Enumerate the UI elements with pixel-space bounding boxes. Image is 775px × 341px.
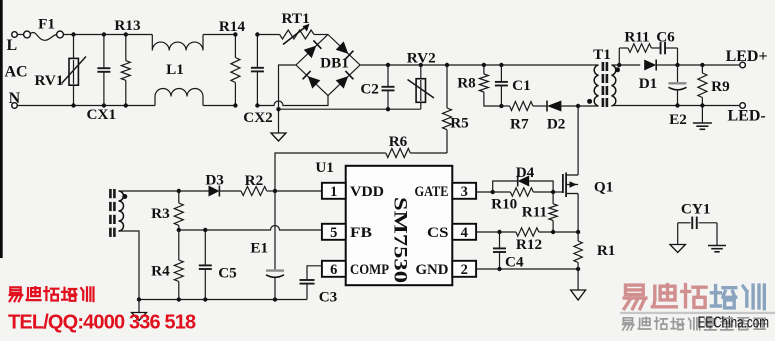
svg-text:D2: D2 <box>547 116 566 133</box>
pin 5 FB <box>322 224 346 240</box>
transistor Q1 MOSFET <box>562 174 564 193</box>
svg-text:R5: R5 <box>450 115 469 132</box>
transformer T1 core <box>602 62 605 71</box>
svg-text:SM7530: SM7530 <box>389 197 409 283</box>
watermark logo underline <box>620 312 775 314</box>
svg-text:DB1: DB1 <box>320 55 349 72</box>
resistor R9 <box>701 65 703 73</box>
svg-text:4: 4 <box>461 225 468 241</box>
common-mode choke L1 <box>152 35 203 51</box>
pin 3 GATE <box>452 183 476 199</box>
wire top AC rail <box>64 34 153 36</box>
wire RT1 to bridge top <box>314 34 328 36</box>
resistor R5 <box>446 65 448 108</box>
svg-text:U1: U1 <box>315 159 334 176</box>
svg-text:D1: D1 <box>639 75 658 92</box>
bridge diode upper-right <box>336 41 349 54</box>
snubber riser left <box>618 48 620 65</box>
svg-text:C6: C6 <box>656 29 675 46</box>
pin 6 COMP <box>322 261 346 277</box>
svg-text:3: 3 <box>461 184 468 200</box>
pin 4 CS <box>452 224 476 240</box>
svg-text:C1: C1 <box>512 77 531 94</box>
svg-text:1: 1 <box>330 184 337 200</box>
resistor R4 <box>178 230 180 260</box>
resistor R11 gate <box>552 192 554 204</box>
svg-text:EEChina.com: EEChina.com <box>698 315 770 332</box>
svg-text:CX2: CX2 <box>243 109 273 126</box>
node drain junction <box>576 104 580 108</box>
ground output earth <box>701 106 703 124</box>
resistor R12 <box>516 228 539 236</box>
capacitor E2 electrolytic <box>677 65 679 82</box>
svg-text:L: L <box>6 37 17 54</box>
svg-text:2: 2 <box>461 262 468 278</box>
resistor R3 <box>174 203 183 225</box>
svg-text:L1: L1 <box>166 61 184 78</box>
svg-text:CX1: CX1 <box>87 106 117 123</box>
wire aux top to D3 line <box>119 190 179 192</box>
svg-text:R7: R7 <box>510 116 529 133</box>
capacitor CX2 <box>256 35 258 68</box>
varistor RV2 <box>420 65 422 79</box>
transformer T1 phase dot primary <box>587 99 592 104</box>
diode D4 bypass <box>493 181 518 192</box>
svg-text:F1: F1 <box>38 15 55 32</box>
ground CY1 left (open triangle) <box>670 245 686 253</box>
aux winding phase dot <box>122 194 127 199</box>
op-amp U1 SM7530 body <box>346 166 453 285</box>
resistor R2 <box>219 190 241 192</box>
capacitor C5 <box>204 230 206 265</box>
svg-text:N: N <box>9 90 21 107</box>
ground primary DC- (open triangle) <box>271 133 286 141</box>
thermistor RT1 <box>280 30 314 39</box>
svg-text:CY1: CY1 <box>681 201 711 218</box>
transformer T1 secondary winding <box>612 65 616 106</box>
ground CY1 right earth <box>708 245 726 247</box>
svg-text:E2: E2 <box>669 111 687 128</box>
terminal L (AC live input) <box>12 32 18 38</box>
svg-text:GND: GND <box>416 262 449 278</box>
capacitor E1 electrolytic <box>274 191 276 269</box>
diode D2 <box>547 101 561 112</box>
svg-text:LED+: LED+ <box>726 48 768 65</box>
svg-text:Q1: Q1 <box>594 179 613 196</box>
capacitor C6 <box>651 47 660 49</box>
terminal LED+ <box>740 62 746 68</box>
svg-text:RV2: RV2 <box>407 49 436 66</box>
wire secondary top to D1 <box>612 64 641 66</box>
svg-text:D3: D3 <box>205 171 224 188</box>
svg-text:TEL/QQ:4000 336 518: TEL/QQ:4000 336 518 <box>8 312 196 334</box>
svg-text:R6: R6 <box>389 133 408 150</box>
diode D3 <box>179 190 209 192</box>
svg-text:R1: R1 <box>597 242 616 259</box>
wire bridge left corner to ground node <box>279 65 297 133</box>
wire L1 to R14 top <box>203 34 235 36</box>
wire R14 to RT1 <box>257 34 279 36</box>
diode D1 <box>644 60 656 71</box>
capacitor C4 <box>499 232 501 248</box>
wire bottom ground rail <box>139 299 307 301</box>
svg-text:T1: T1 <box>593 46 611 63</box>
aux winding core <box>109 189 112 198</box>
wire primary ground rail <box>279 108 421 110</box>
resistor R7 <box>501 105 509 107</box>
transformer T1 phase dot secondary <box>615 67 620 72</box>
svg-text:C5: C5 <box>218 265 237 282</box>
svg-text:R14: R14 <box>219 18 246 35</box>
capacitor C1 <box>500 65 502 81</box>
resistor R11 snubber <box>619 47 628 49</box>
svg-text:D4: D4 <box>516 164 535 181</box>
bridge diode upper-left <box>304 46 317 59</box>
svg-text:VDD: VDD <box>350 184 384 200</box>
svg-text:R2: R2 <box>245 172 264 189</box>
resistor R13 <box>125 35 127 61</box>
svg-text:C3: C3 <box>319 289 338 306</box>
svg-text:R3: R3 <box>151 205 170 222</box>
svg-text:C4: C4 <box>505 254 524 271</box>
capacitor CX1 <box>103 35 105 69</box>
node gate <box>551 190 555 194</box>
svg-text:GATE: GATE <box>415 184 449 200</box>
node VDD <box>273 189 277 193</box>
ground aux (open triangle) <box>138 300 140 313</box>
pin 1 VDD <box>322 183 346 199</box>
ground power (open triangle) <box>577 269 579 290</box>
bridge rectifier DB1 outline <box>296 35 360 96</box>
wire DC+ rail <box>360 64 599 66</box>
watermark EDT training logo <box>624 285 646 309</box>
svg-text:RV1: RV1 <box>35 72 64 89</box>
svg-text:R11: R11 <box>522 204 547 221</box>
wire FB line <box>179 229 206 231</box>
wire bottom AC rail <box>18 105 156 107</box>
wire CS row <box>476 231 516 233</box>
resistor R1 <box>577 232 579 241</box>
resistor R8 <box>483 65 485 74</box>
terminal N (AC neutral input) <box>12 103 18 109</box>
svg-text:R8: R8 <box>457 75 476 92</box>
watermark grey slogan text <box>623 318 634 330</box>
svg-text:R12: R12 <box>516 236 542 253</box>
svg-text:C2: C2 <box>360 81 379 98</box>
svg-text:COMP: COMP <box>350 262 389 278</box>
svg-text:R9: R9 <box>711 78 730 95</box>
wire GATE to node <box>476 191 493 193</box>
svg-text:AC: AC <box>4 64 27 81</box>
varistor RV1 <box>73 35 75 59</box>
svg-text:R13: R13 <box>114 17 141 34</box>
wire AC neutral hop to bridge bottom <box>257 96 328 106</box>
transformer T1 primary winding <box>594 65 598 106</box>
fuse F1 <box>24 31 31 38</box>
wire L to F1 <box>18 34 24 36</box>
resistor R6 <box>410 152 447 154</box>
svg-text:6: 6 <box>330 262 337 278</box>
wire D1 to LED+ <box>656 64 739 66</box>
svg-text:RT1: RT1 <box>282 10 310 27</box>
svg-text:CS: CS <box>427 225 449 241</box>
wire L1 to R14 bottom <box>203 105 235 107</box>
wire GND row <box>476 268 578 270</box>
capacitor C2 <box>387 65 389 87</box>
resistor R14 <box>234 35 236 58</box>
watermark chinese company text <box>10 287 23 301</box>
svg-text:R10: R10 <box>491 196 518 213</box>
svg-text:FB: FB <box>350 225 372 241</box>
svg-text:R4: R4 <box>151 263 170 280</box>
pin 2 GND <box>452 261 476 277</box>
capacitor C3 <box>307 266 322 280</box>
wire secondary bottom to LED- <box>612 105 740 107</box>
terminal LED- <box>740 103 746 109</box>
svg-text:E1: E1 <box>250 240 268 257</box>
bridge diode lower-right <box>336 76 349 89</box>
svg-text:5: 5 <box>330 225 337 241</box>
bridge diode lower-left <box>308 76 321 89</box>
wire aux bottom to ground rail <box>119 231 140 300</box>
aux winding coil <box>119 191 124 231</box>
resistor R10 <box>510 188 533 196</box>
svg-text:R11: R11 <box>624 29 649 46</box>
svg-text:LED-: LED- <box>727 108 765 125</box>
